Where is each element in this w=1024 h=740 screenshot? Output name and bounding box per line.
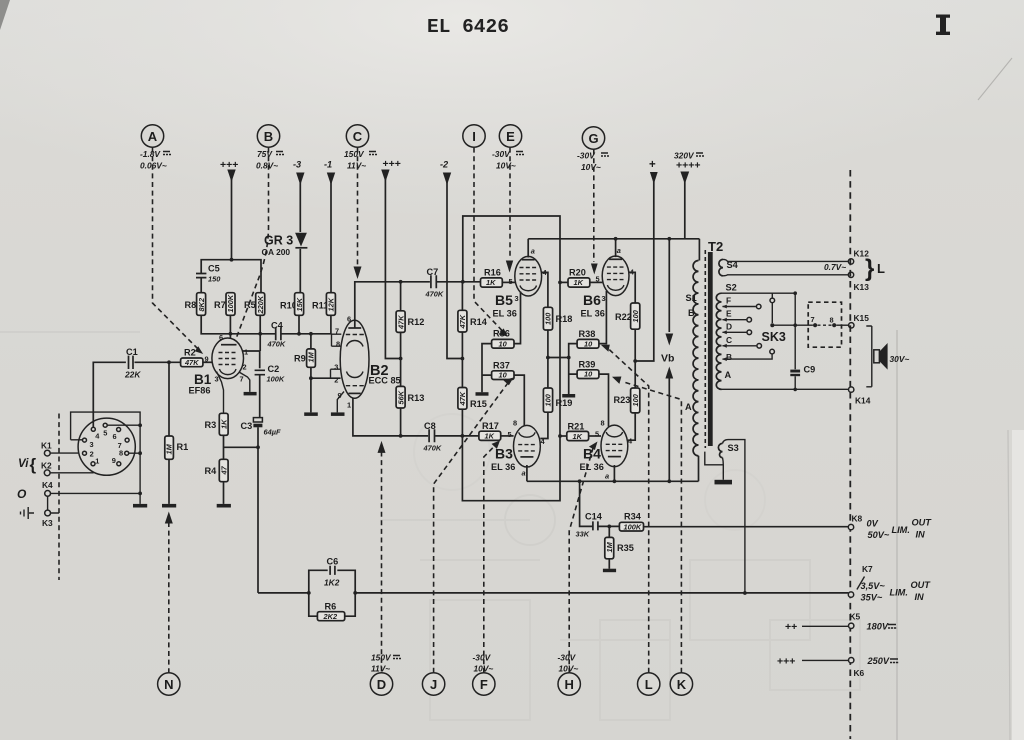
- resistor R16: [481, 268, 503, 288]
- svg-text:3: 3: [334, 363, 338, 372]
- wire B6 cathode to R38: [599, 291, 607, 344]
- svg-text:R1: R1: [177, 442, 189, 452]
- svg-text:5: 5: [596, 275, 600, 284]
- node box left edge / C7 rail: [461, 280, 465, 284]
- transformer T2 primary S1 winding: [693, 239, 699, 481]
- wire R22 bottom to R23: [634, 329, 636, 388]
- svg-text:7: 7: [335, 327, 339, 336]
- svg-text:56K: 56K: [396, 390, 405, 404]
- resistor R4: [205, 459, 229, 481]
- wire R13 bottom to C8 rail: [400, 408, 402, 436]
- svg-text:A: A: [685, 402, 692, 412]
- svg-text:R16: R16: [484, 268, 501, 278]
- svg-text:OA 200: OA 200: [262, 247, 291, 257]
- svg-text:1K: 1K: [574, 278, 584, 287]
- svg-text:R12: R12: [408, 317, 425, 327]
- wire B2 pin9 to ground: [337, 392, 344, 413]
- svg-text:10: 10: [499, 339, 508, 348]
- node R5/bus: [258, 332, 262, 336]
- svg-text:K3: K3: [42, 518, 53, 528]
- measure circle G: [582, 127, 604, 149]
- svg-text:R2: R2: [184, 348, 196, 358]
- resistor R17: [479, 421, 501, 441]
- capacitor C1: [124, 347, 141, 380]
- svg-text:8: 8: [119, 448, 123, 457]
- supply arrow 320V: [680, 172, 689, 239]
- svg-text:1K2: 1K2: [324, 578, 340, 588]
- svg-text:L: L: [645, 677, 653, 692]
- measure line I (dashed diagonal to R36): [474, 148, 508, 337]
- measure circle B: [257, 125, 279, 147]
- svg-text:F: F: [480, 677, 488, 692]
- svg-text:}: }: [865, 255, 874, 282]
- wire R18/R19 node to R38 column: [548, 357, 569, 359]
- wire C7 to R16: [437, 281, 481, 283]
- svg-text:R38: R38: [579, 329, 596, 339]
- svg-text:5: 5: [103, 429, 107, 438]
- svg-text:R35: R35: [617, 543, 634, 553]
- coupling box around B5/B3 (left edge with R14, R15): [462, 216, 560, 501]
- svg-text:EL 36: EL 36: [491, 462, 515, 472]
- svg-text:{: {: [30, 455, 37, 474]
- resistor R7: [214, 293, 235, 316]
- wire S3 bottom to ground: [705, 452, 724, 480]
- svg-text:470K: 470K: [423, 444, 442, 453]
- svg-text:100: 100: [631, 309, 640, 322]
- svg-text:-1: -1: [324, 160, 332, 170]
- tube B4 EL36 (inverted): [595, 419, 633, 481]
- svg-text:T2: T2: [708, 239, 723, 254]
- terminal K12: [848, 249, 869, 265]
- svg-text:6: 6: [347, 315, 351, 324]
- S2 bottom lead to K14 rail: [722, 388, 849, 390]
- wire S4 to K12: [723, 259, 848, 261]
- label B voltages: [256, 149, 284, 171]
- svg-text:C5: C5: [208, 264, 220, 274]
- svg-text:F: F: [726, 296, 731, 306]
- S2 top lead to SK3 rail: [722, 292, 796, 294]
- measure circle A: [141, 125, 163, 147]
- svg-text:R19: R19: [556, 398, 573, 408]
- svg-text:250V: 250V: [867, 656, 890, 666]
- measure circle N: [158, 673, 180, 695]
- label B4 EL36: [580, 446, 604, 473]
- svg-text:R37: R37: [493, 361, 510, 371]
- resistor R21: [567, 422, 589, 441]
- wire R9 top to bus: [310, 334, 312, 349]
- svg-text:8: 8: [513, 419, 517, 428]
- svg-text:-1.8V: -1.8V: [140, 149, 161, 159]
- svg-text:-2: -2: [440, 160, 449, 170]
- resistor R12: [396, 311, 424, 333]
- measure line N (dashed arrow up): [165, 512, 173, 673]
- svg-text:K8: K8: [852, 514, 863, 524]
- capacitor C4 (in bus): [267, 321, 286, 349]
- svg-text:12K: 12K: [327, 297, 336, 311]
- wire R20 to B6 grid: [590, 281, 603, 283]
- svg-text:8: 8: [830, 316, 834, 325]
- svg-text:-3: -3: [293, 160, 301, 170]
- svg-text:K1: K1: [41, 441, 52, 451]
- measure circle I: [463, 125, 485, 147]
- wire R34 to K8: [644, 526, 849, 528]
- measure circle H: [558, 673, 580, 695]
- wire -2 down to R14/R15 junction: [447, 180, 462, 359]
- node R12/R13 (-2 feed): [399, 357, 403, 361]
- wire B2 pin3 stub: [331, 369, 341, 378]
- node R12 top: [399, 280, 403, 284]
- capacitor C7: [425, 267, 444, 299]
- svg-text:K13: K13: [854, 282, 870, 292]
- svg-text:LIM.: LIM.: [892, 525, 910, 535]
- label E voltages: [492, 149, 524, 171]
- measure line J (dashed to R37): [434, 378, 514, 673]
- svg-text:R9: R9: [294, 354, 306, 364]
- resistor R8: [185, 293, 206, 316]
- wire S3 top to K7 rail column: [723, 440, 745, 594]
- svg-text:C9: C9: [804, 365, 816, 375]
- ground (R36/R37): [476, 392, 489, 396]
- label B2 ECC85: [369, 363, 401, 386]
- wire C3 down to C6 box: [257, 427, 259, 593]
- anode bottom rail (B3/B4 to transformer): [527, 480, 699, 482]
- measure line H (dashed to B4 grid): [569, 442, 597, 673]
- wire R37 right to B3 top: [514, 375, 524, 427]
- wire R3/R4 junction: [224, 435, 259, 459]
- svg-text:S2: S2: [726, 283, 737, 293]
- svg-text:C6: C6: [327, 557, 339, 567]
- terminal K14: [849, 387, 871, 406]
- svg-text:K15: K15: [854, 313, 870, 323]
- wire R21 left to box edge: [560, 435, 567, 437]
- wire + down to R22/R23 junction: [635, 179, 654, 361]
- supply 320V label: [674, 151, 704, 172]
- supply arrow -2: [440, 160, 451, 186]
- resistor R20: [568, 268, 590, 288]
- wire R17 to B3 grid: [501, 435, 514, 437]
- wire +++ to top wire / R7: [231, 177, 233, 260]
- svg-text:R7: R7: [214, 300, 226, 310]
- svg-text:LIM.: LIM.: [890, 588, 908, 598]
- wire socket pin4 up to C1: [93, 362, 126, 427]
- wire C1 to R2: [135, 361, 181, 363]
- measure line K (dashed to R39): [612, 377, 681, 673]
- svg-text:8K2: 8K2: [197, 297, 206, 311]
- svg-text:K2: K2: [41, 461, 52, 471]
- svg-text:47K: 47K: [458, 314, 467, 329]
- svg-text:A: A: [148, 129, 158, 144]
- svg-text:47K: 47K: [458, 391, 467, 406]
- node R14/R15 (-2 feed): [461, 357, 465, 361]
- wire -3 to GR3: [299, 180, 301, 232]
- svg-text:C2: C2: [268, 364, 280, 374]
- svg-text:3: 3: [90, 440, 94, 449]
- svg-text:47: 47: [219, 465, 228, 475]
- wire B1 pin1 to C2 column: [243, 351, 260, 368]
- wire B2 anode riser to C7 rail: [355, 282, 430, 328]
- terminal K8: [848, 514, 862, 530]
- svg-text:K: K: [677, 677, 687, 692]
- svg-text:Vb: Vb: [661, 353, 674, 365]
- wire R1 top: [168, 362, 170, 436]
- svg-text:-30V: -30V: [558, 653, 577, 663]
- bus notch to B2 pins 7,8: [332, 334, 342, 346]
- svg-text:OUT: OUT: [911, 580, 932, 590]
- svg-text:R5: R5: [244, 300, 256, 310]
- capacitor C2: [255, 364, 285, 384]
- svg-text:++++: ++++: [676, 160, 701, 172]
- terminal K7: [848, 564, 873, 597]
- tap D: [722, 322, 752, 335]
- svg-text:100K: 100K: [624, 523, 642, 532]
- terminal K5: [785, 612, 896, 634]
- resistor R5: [244, 293, 265, 316]
- svg-text:10V~: 10V~: [496, 161, 516, 171]
- svg-text:9: 9: [112, 456, 116, 465]
- svg-text:0V: 0V: [867, 519, 879, 529]
- measure line L (dashed to R38): [601, 345, 649, 673]
- wire R36/R37 left to ground: [482, 344, 492, 393]
- svg-text:R22: R22: [615, 312, 632, 322]
- ground (socket): [133, 504, 147, 508]
- svg-text:1: 1: [347, 401, 351, 410]
- capacitor C8: [423, 421, 442, 453]
- sheet numeral I: [936, 15, 950, 36]
- wire R14 bottom: [461, 332, 463, 388]
- resistor R36: [492, 329, 514, 349]
- svg-text:J: J: [430, 677, 437, 692]
- boundary dashed line (right): [849, 170, 851, 739]
- capacitor C3 (electrolytic): [241, 418, 281, 437]
- svg-text:ECC 85: ECC 85: [369, 376, 401, 386]
- resistor R37: [492, 361, 514, 380]
- wire K4 to ground branch: [51, 492, 141, 494]
- svg-text:a: a: [522, 469, 526, 478]
- wire R15 bottom: [461, 409, 463, 436]
- wire C14 to R34: [599, 525, 620, 527]
- svg-text:33K: 33K: [576, 530, 590, 539]
- secondary S3 winding: [718, 443, 738, 458]
- svg-text:3,5V~: 3,5V~: [861, 581, 886, 591]
- resistor R1: [165, 436, 189, 459]
- svg-text:3: 3: [515, 294, 519, 303]
- svg-text:R17: R17: [482, 421, 499, 431]
- svg-text:SK3: SK3: [762, 330, 786, 344]
- svg-text:35V~: 35V~: [861, 593, 883, 603]
- tap F: [722, 296, 761, 309]
- svg-text:L: L: [877, 261, 885, 276]
- svg-text:+: +: [649, 159, 656, 171]
- resistor R39: [577, 360, 599, 379]
- measure circle J: [422, 673, 444, 695]
- capacitor C9: [790, 291, 815, 391]
- label B5 EL36: [493, 292, 517, 319]
- svg-text:1K: 1K: [573, 432, 583, 441]
- svg-text:10V~: 10V~: [474, 664, 494, 674]
- terminal K6: [777, 656, 898, 679]
- terminal K1: [41, 441, 52, 457]
- svg-text:470K: 470K: [425, 290, 444, 299]
- resistor R11: [312, 293, 336, 316]
- measure circle F: [473, 673, 495, 695]
- svg-text:+++: +++: [383, 158, 401, 170]
- svg-text:GR 3: GR 3: [264, 234, 293, 248]
- svg-text:R14: R14: [470, 317, 488, 327]
- svg-text:2K2: 2K2: [323, 612, 338, 621]
- measure line F (dashed to B3 grid): [484, 441, 500, 673]
- wire C5 top / top rail: [201, 260, 261, 293]
- wire R9 bottom to ground and B2 pin2: [311, 367, 341, 412]
- svg-text:470K: 470K: [267, 340, 286, 349]
- svg-text:K5: K5: [850, 612, 861, 622]
- svg-text:a: a: [617, 246, 621, 255]
- tap C: [722, 335, 762, 348]
- capacitor C5: [196, 264, 221, 284]
- svg-text:D: D: [377, 677, 386, 692]
- wire R21 to B4 grid: [589, 435, 601, 437]
- label } L: [865, 255, 885, 282]
- svg-text:11V~: 11V~: [347, 161, 366, 171]
- label Vi with brace: [18, 455, 37, 474]
- svg-text:+++: +++: [777, 656, 795, 668]
- resistor R34: [619, 512, 643, 532]
- svg-text:1M: 1M: [165, 443, 174, 454]
- svg-text:IN: IN: [915, 592, 925, 602]
- label B3 EL36: [491, 446, 515, 473]
- svg-text:B3: B3: [495, 446, 513, 462]
- svg-text:C: C: [726, 335, 732, 345]
- node R7 top rail: [230, 258, 234, 262]
- speaker with bracket: [866, 326, 909, 387]
- measure line A (dashed to R2): [153, 148, 204, 354]
- svg-text:EL 36: EL 36: [580, 462, 604, 472]
- svg-text:2: 2: [243, 363, 247, 372]
- node C1/R2/R1: [167, 360, 171, 364]
- svg-text:9: 9: [205, 355, 209, 364]
- svg-text:C14: C14: [585, 512, 603, 522]
- wire R19 bottom to B3 screen pin4: [540, 412, 548, 438]
- svg-text:S3: S3: [728, 443, 739, 453]
- wire B6 screen pin4 to R22: [629, 272, 635, 303]
- svg-text:10: 10: [584, 339, 593, 348]
- wire -1 to R11: [330, 180, 332, 293]
- svg-text:2: 2: [90, 450, 94, 459]
- svg-text:180V: 180V: [867, 622, 889, 632]
- svg-text:220K: 220K: [256, 295, 265, 314]
- svg-text:15K: 15K: [295, 297, 304, 311]
- svg-text:R13: R13: [408, 393, 425, 403]
- label S1 B A: [685, 293, 697, 412]
- terminal K2: [41, 461, 52, 476]
- svg-text:R23: R23: [614, 395, 631, 405]
- svg-text:R36: R36: [493, 329, 510, 339]
- svg-text:OUT: OUT: [912, 518, 933, 528]
- svg-text:100K: 100K: [267, 375, 285, 384]
- svg-text:R6: R6: [325, 602, 337, 612]
- svg-text:H: H: [565, 677, 574, 692]
- svg-text:6: 6: [219, 333, 223, 342]
- svg-text:C3: C3: [241, 421, 253, 431]
- tube socket B1 base: [78, 418, 135, 475]
- measure line E (bold dashed arrow to B5 grid): [506, 148, 513, 273]
- svg-text:S1: S1: [686, 293, 697, 303]
- measure line D (dashed arrow up at B2 pin1 rail): [378, 441, 386, 673]
- measure circle E: [499, 125, 521, 147]
- wire R10 bottom: [298, 315, 300, 334]
- wire C3 column into C6 box: [258, 592, 309, 594]
- ground (R35): [603, 569, 616, 573]
- svg-text:a: a: [531, 247, 535, 256]
- svg-text:10V~: 10V~: [559, 664, 579, 674]
- svg-text:5: 5: [509, 277, 513, 286]
- wire R23 bottom to B4 screen pin4: [628, 413, 635, 440]
- svg-text:100: 100: [544, 393, 553, 406]
- wire B1 pin2/7 cathode to ground: [239, 372, 250, 392]
- switch SK3: [762, 293, 849, 347]
- resistor R9: [294, 349, 316, 367]
- terminal K3: [42, 510, 53, 528]
- svg-text:a: a: [605, 472, 609, 481]
- svg-text:A: A: [725, 370, 732, 380]
- wire K1 to socket pin2: [50, 452, 81, 454]
- svg-text:EL 36: EL 36: [493, 309, 517, 319]
- wire B1 pin3 to R3: [217, 372, 224, 414]
- svg-text:E: E: [506, 129, 515, 144]
- svg-text:47K: 47K: [396, 315, 405, 330]
- wire R5 bottom to bus/C2 column: [259, 315, 261, 351]
- measure circle L: [638, 673, 660, 695]
- svg-text:G: G: [588, 131, 598, 146]
- svg-text:1K: 1K: [486, 278, 496, 287]
- wire K2 to socket pin1: [50, 467, 93, 473]
- supply arrow +++ (left): [220, 159, 238, 182]
- label K7 voltages: [861, 580, 932, 603]
- resistor R22: [615, 303, 640, 329]
- resistor R3: [205, 413, 229, 435]
- wire R38/R39 left to ground: [569, 344, 577, 394]
- svg-text:6: 6: [113, 432, 117, 441]
- wire anode rail to C14: [580, 481, 593, 526]
- svg-text:1K: 1K: [485, 432, 495, 441]
- svg-text:5: 5: [595, 430, 599, 439]
- measure circle K: [670, 673, 692, 695]
- svg-text:7: 7: [240, 375, 244, 384]
- resistor R2: [181, 348, 203, 368]
- measure line G (dashed arrow to B6 grid): [591, 150, 598, 275]
- label H voltages: [558, 653, 579, 674]
- svg-text:0.06V~: 0.06V~: [140, 161, 167, 171]
- svg-text:5: 5: [508, 430, 512, 439]
- measure line B (dashed curve to B1 anode): [232, 148, 269, 349]
- wire R35 top/bottom: [608, 526, 610, 568]
- svg-text:D: D: [726, 322, 732, 332]
- svg-text:++: ++: [785, 621, 797, 633]
- wire B5 cathode to R36: [514, 292, 521, 344]
- svg-text:R3: R3: [205, 420, 217, 430]
- svg-text:B6: B6: [583, 292, 601, 308]
- secondary S4 winding: [719, 259, 739, 275]
- ground (B1 cathode): [244, 392, 257, 396]
- node R18/R19: [546, 356, 550, 360]
- svg-text:1M: 1M: [307, 351, 316, 362]
- node R7/bus: [229, 332, 233, 336]
- ground (S3) thick bar: [715, 480, 733, 485]
- svg-text:50V~: 50V~: [868, 530, 890, 540]
- svg-text:7: 7: [811, 315, 815, 324]
- transformer core: [705, 250, 712, 448]
- ground (R4): [217, 504, 231, 508]
- svg-text:1K: 1K: [219, 419, 228, 429]
